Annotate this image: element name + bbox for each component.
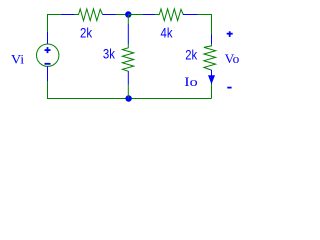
svg-text:2k: 2k [80, 25, 93, 41]
pin right of resistor 2k (top) [103, 14, 117, 16]
wire left rail lower segment [47, 81, 49, 99]
resistor 3k (middle, vertical) [122, 44, 133, 71]
svg-text:Io: Io [184, 74, 197, 89]
pin right of resistor 4k [183, 14, 198, 16]
node B junction dot (bottom) [125, 95, 131, 101]
wire top-right corner segment [198, 15, 212, 35]
resistor 4k (top-right, horizontal) [155, 9, 183, 21]
pin left of resistor 2k (top) [61, 14, 75, 16]
wire right rail bottom segment [211, 84, 213, 99]
node A junction dot (top) [125, 11, 131, 17]
pin bottom of resistor 3k [127, 71, 129, 85]
svg-text:Vo: Vo [225, 51, 240, 66]
resistor 2k (top-left, horizontal) [74, 9, 102, 21]
source plus sign [45, 47, 51, 53]
source minus sign [45, 63, 51, 65]
label Vi [11, 51, 25, 66]
pin top of resistor 2k (right) [211, 35, 213, 45]
svg-text:2k: 2k [185, 47, 198, 63]
svg-text:3k: 3k [103, 46, 116, 62]
label minus (Vo polarity) [227, 87, 231, 89]
wire top-left corner segment [48, 15, 62, 33]
pin top of source Vi [47, 32, 49, 44]
wire from 2k pin to node A [116, 14, 128, 16]
pin bottom of source Vi [47, 66, 49, 81]
label 2k (right resistor) [185, 47, 198, 63]
label Io [184, 74, 197, 89]
label 4k [161, 25, 174, 41]
label plus (Vo polarity) [227, 31, 233, 37]
pin bottom of resistor 2k (right) [211, 70, 213, 84]
pin top of resistor 3k [127, 24, 129, 44]
label 2k (top resistor) [80, 25, 93, 41]
wire left rail upper segment [47, 31, 49, 33]
label Vo [225, 51, 240, 66]
wire from node A to 4k pin [128, 14, 143, 16]
wire bottom rail [48, 98, 212, 100]
pin left of resistor 4k [143, 14, 156, 16]
voltage source Vi circle [37, 44, 59, 66]
svg-text:Vi: Vi [11, 51, 25, 66]
svg-text:4k: 4k [161, 25, 174, 41]
wire from 3k pin to node B [127, 85, 129, 99]
wire from node A down to 3k pin [127, 15, 129, 25]
current arrow Io (down) [208, 75, 215, 84]
resistor 2k (right, vertical) [204, 44, 216, 70]
label 3k [103, 46, 116, 62]
